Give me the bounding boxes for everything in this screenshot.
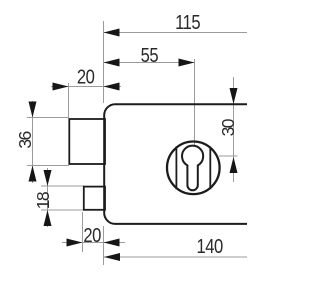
svg-text:18: 18 <box>33 192 53 209</box>
svg-text:20: 20 <box>83 224 101 247</box>
svg-text:36: 36 <box>15 132 35 149</box>
svg-text:55: 55 <box>141 44 159 67</box>
svg-text:20: 20 <box>77 65 95 88</box>
svg-text:140: 140 <box>197 234 223 257</box>
svg-text:30: 30 <box>218 118 238 136</box>
svg-text:115: 115 <box>175 11 200 34</box>
